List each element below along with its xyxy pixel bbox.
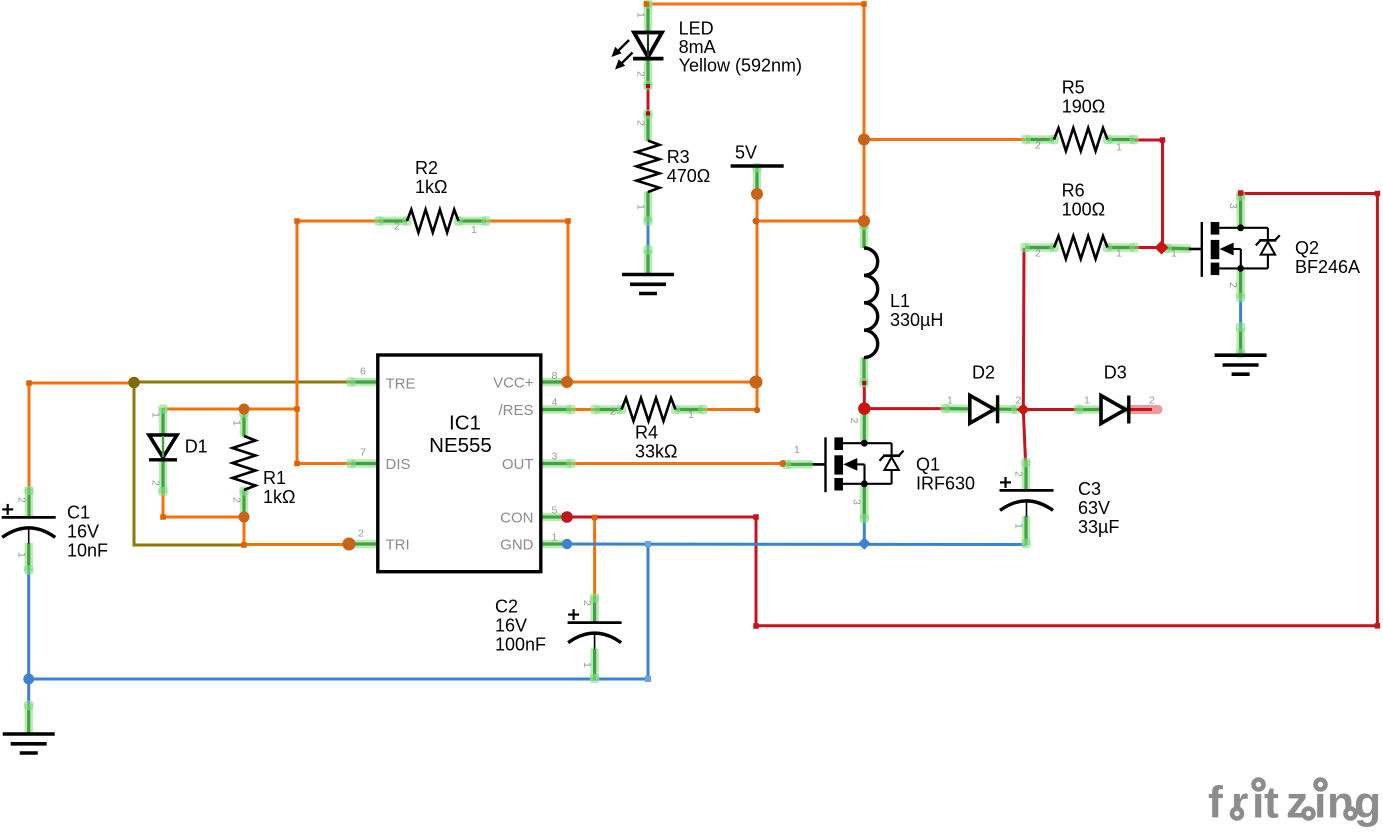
svg-text:2: 2 [581,600,593,606]
svg-text:Q1: Q1 [916,455,940,475]
svg-text:C1: C1 [67,503,90,523]
svg-text:2: 2 [394,221,400,233]
svg-text:8mA: 8mA [679,37,716,57]
svg-text:2: 2 [358,528,364,540]
svg-text:R4: R4 [635,423,658,443]
svg-text:C3: C3 [1078,479,1101,499]
svg-text:z: z [1286,779,1308,828]
svg-text:LED: LED [679,18,714,38]
svg-text:t: t [1264,779,1279,828]
svg-text:1: 1 [688,409,694,421]
svg-text:1: 1 [471,224,477,236]
svg-text:BF246A: BF246A [1295,257,1360,277]
svg-text:D1: D1 [185,437,208,457]
svg-text:2: 2 [1035,248,1041,260]
svg-text:1: 1 [231,420,243,426]
svg-text:2: 2 [1149,395,1155,407]
svg-text:Q2: Q2 [1295,238,1319,258]
svg-text:1: 1 [1116,142,1122,154]
svg-text:16V: 16V [495,615,527,635]
svg-text:f: f [1208,779,1223,828]
svg-text:2: 2 [635,71,647,77]
svg-text:IC1: IC1 [449,412,481,435]
svg-text:1: 1 [635,204,647,210]
svg-text:D3: D3 [1104,362,1127,382]
svg-text:63V: 63V [1078,498,1110,518]
svg-text:IRF630: IRF630 [916,474,975,494]
svg-text:5: 5 [552,505,558,517]
svg-text:330µH: 330µH [890,310,943,330]
svg-text:1: 1 [150,412,162,418]
svg-text:NE555: NE555 [429,434,492,457]
svg-text:3: 3 [1227,203,1239,209]
svg-text:3: 3 [552,451,558,463]
svg-text:/RES: /RES [498,402,533,419]
svg-text:DIS: DIS [386,456,411,473]
svg-text:TRE: TRE [386,375,416,392]
svg-text:D2: D2 [972,362,995,382]
svg-text:1: 1 [1171,248,1177,260]
svg-text:5V: 5V [735,143,757,163]
svg-text:100nF: 100nF [495,634,546,654]
svg-text:1: 1 [16,552,28,558]
svg-text:L1: L1 [890,291,910,311]
svg-text:470Ω: 470Ω [667,166,711,186]
svg-text:C2: C2 [495,596,518,616]
svg-text:R2: R2 [415,158,438,178]
svg-text:1kΩ: 1kΩ [415,177,447,197]
svg-text:VCC+: VCC+ [493,374,534,391]
svg-text:R3: R3 [667,147,690,167]
svg-text:OUT: OUT [502,456,534,473]
svg-text:2: 2 [610,406,616,418]
svg-text:1: 1 [1084,395,1090,407]
svg-text:GND: GND [500,536,534,553]
svg-text:2: 2 [16,497,28,503]
svg-text:g: g [1354,779,1381,828]
svg-text:7: 7 [360,447,366,459]
svg-text:33µF: 33µF [1078,517,1119,537]
svg-text:1: 1 [635,12,647,18]
svg-text:8: 8 [552,370,558,382]
svg-text:6: 6 [360,366,366,378]
svg-text:R6: R6 [1062,180,1085,200]
svg-text:TRI: TRI [386,536,410,553]
svg-text:4: 4 [552,397,558,409]
svg-text:3: 3 [851,499,863,505]
svg-text:CON: CON [500,509,533,526]
svg-text:2: 2 [150,480,162,486]
svg-text:1: 1 [1013,523,1025,529]
svg-text:2: 2 [635,120,647,126]
svg-text:1: 1 [581,662,593,668]
svg-text:1: 1 [1116,248,1122,260]
svg-text:1: 1 [794,444,800,456]
svg-text:1: 1 [947,395,953,407]
svg-text:1kΩ: 1kΩ [263,487,295,507]
svg-text:1: 1 [552,532,558,544]
svg-text:R5: R5 [1062,78,1085,98]
svg-text:10nF: 10nF [67,541,108,561]
svg-text:16V: 16V [67,522,99,542]
svg-text:Yellow (592nm): Yellow (592nm) [679,55,802,75]
svg-text:33kΩ: 33kΩ [635,442,677,462]
svg-text:2: 2 [1016,395,1022,407]
svg-text:2: 2 [848,418,860,424]
svg-text:2: 2 [1013,471,1025,477]
svg-text:2: 2 [231,497,243,503]
svg-text:100Ω: 100Ω [1062,199,1106,219]
svg-text:2: 2 [1035,140,1041,152]
svg-text:R1: R1 [263,468,286,488]
svg-text:2: 2 [1227,282,1239,288]
svg-text:190Ω: 190Ω [1062,97,1106,117]
